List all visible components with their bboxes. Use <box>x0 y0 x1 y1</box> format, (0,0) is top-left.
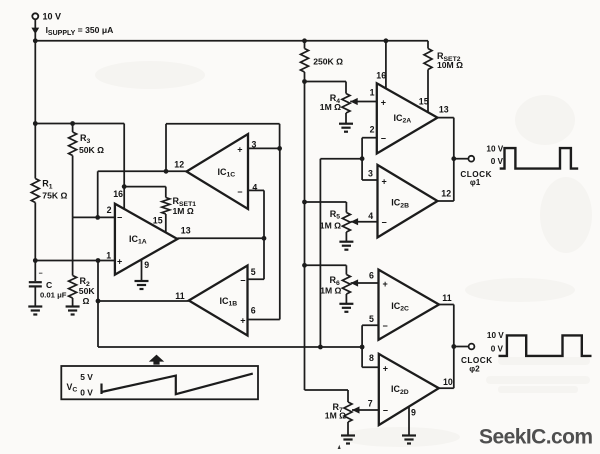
svg-text:1M Ω: 1M Ω <box>320 286 341 296</box>
svg-text:11: 11 <box>442 293 451 303</box>
svg-text:IC2C: IC2C <box>391 301 409 313</box>
svg-text:IC1B: IC1B <box>220 296 238 308</box>
svg-text:9: 9 <box>144 260 149 270</box>
svg-text:5: 5 <box>369 314 374 324</box>
svg-text:13: 13 <box>439 105 449 115</box>
svg-text:10 V: 10 V <box>487 331 504 340</box>
svg-text:50K: 50K <box>79 286 96 296</box>
svg-text:−: − <box>39 271 43 278</box>
svg-text:1: 1 <box>370 88 375 98</box>
svg-text:SeekIC.com: SeekIC.com <box>479 426 593 449</box>
svg-text:+: + <box>383 279 388 289</box>
svg-text:16: 16 <box>113 189 123 199</box>
svg-text:−: − <box>381 133 386 143</box>
svg-text:50K Ω: 50K Ω <box>79 145 104 155</box>
svg-text:IC1C: IC1C <box>218 167 236 179</box>
svg-text:1M Ω: 1M Ω <box>320 220 341 230</box>
svg-text:IC2B: IC2B <box>391 198 409 210</box>
svg-text:12: 12 <box>174 159 184 169</box>
svg-text:1M Ω: 1M Ω <box>325 411 346 421</box>
svg-text:R5: R5 <box>330 209 341 221</box>
svg-text:+: + <box>381 97 386 107</box>
svg-text:11: 11 <box>175 291 184 301</box>
svg-text:15: 15 <box>419 97 429 107</box>
svg-text:−: − <box>240 275 245 285</box>
svg-text:9: 9 <box>411 408 416 418</box>
svg-text:0.01 μF: 0.01 μF <box>40 291 67 300</box>
svg-text:−: − <box>237 187 242 197</box>
svg-text:−: − <box>383 406 388 416</box>
svg-text:5 V: 5 V <box>80 372 93 382</box>
svg-text:10 V: 10 V <box>486 145 503 154</box>
svg-text:6: 6 <box>251 306 256 316</box>
svg-text:C: C <box>46 280 52 290</box>
svg-text:0 V: 0 V <box>491 345 504 354</box>
svg-text:7: 7 <box>368 399 373 409</box>
svg-text:+: + <box>117 256 122 266</box>
svg-text:IC2A: IC2A <box>394 113 412 125</box>
svg-text:5: 5 <box>251 267 256 277</box>
svg-text:10 V: 10 V <box>43 12 62 22</box>
svg-text:φ1: φ1 <box>470 178 481 187</box>
svg-text:10M Ω: 10M Ω <box>437 60 463 70</box>
svg-text:75K Ω: 75K Ω <box>42 191 67 201</box>
svg-text:2: 2 <box>370 125 375 135</box>
svg-text:1: 1 <box>106 251 111 261</box>
svg-text:−: − <box>383 321 388 331</box>
svg-text:6: 6 <box>369 271 374 281</box>
svg-text:250K Ω: 250K Ω <box>313 57 343 67</box>
svg-text:0 V: 0 V <box>491 157 504 166</box>
svg-text:φ2: φ2 <box>469 365 480 374</box>
svg-text:IC2D: IC2D <box>391 384 409 396</box>
svg-text:10: 10 <box>443 377 453 387</box>
svg-text:ISUPPLY = 350 μA: ISUPPLY = 350 μA <box>46 25 114 37</box>
svg-text:12: 12 <box>441 189 451 199</box>
svg-text:+: + <box>240 315 245 325</box>
svg-text:1M Ω: 1M Ω <box>320 102 341 112</box>
svg-text:−: − <box>382 218 387 228</box>
svg-text:16: 16 <box>376 71 386 81</box>
svg-text:+: + <box>383 364 388 374</box>
svg-text:Ω: Ω <box>83 296 90 306</box>
svg-text:2: 2 <box>107 205 112 215</box>
svg-text:13: 13 <box>181 226 191 236</box>
svg-text:0 V: 0 V <box>80 388 93 398</box>
svg-text:3: 3 <box>368 169 373 179</box>
svg-text:R3: R3 <box>80 133 91 145</box>
svg-text:−: − <box>117 213 122 223</box>
svg-text:15: 15 <box>153 216 163 226</box>
svg-text:+: + <box>382 176 387 186</box>
svg-text:IC1A: IC1A <box>129 234 147 246</box>
svg-text:8: 8 <box>369 353 374 363</box>
svg-text:VC: VC <box>67 382 78 394</box>
svg-text:+: + <box>237 144 242 154</box>
svg-text:1M Ω: 1M Ω <box>173 206 194 216</box>
svg-text:4: 4 <box>368 211 373 221</box>
svg-text:R1: R1 <box>42 179 53 191</box>
